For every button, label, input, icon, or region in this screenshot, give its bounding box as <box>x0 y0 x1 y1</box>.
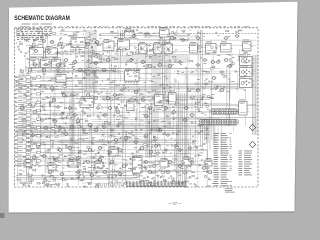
svg-text:SCHEMATIC DIAGRAM: SCHEMATIC DIAGRAM <box>14 15 70 22</box>
svg-text:— 27 —: — 27 — <box>169 202 182 206</box>
